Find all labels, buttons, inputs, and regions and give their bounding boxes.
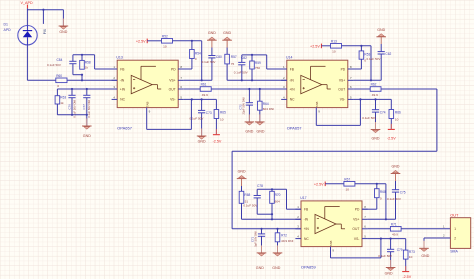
svg-text:+IN: +IN: [120, 87, 126, 91]
wire PD pin 8 of U13: [178, 68, 192, 70]
wire feedback vertical: [81, 75, 83, 81]
junction: [260, 228, 262, 230]
svg-text:0.1uF 50V: 0.1uF 50V: [234, 70, 248, 74]
svg-text:0: 0: [57, 84, 59, 88]
capacitor C71: [258, 234, 265, 253]
label SMA: [450, 250, 458, 254]
junction R59 top: [251, 54, 253, 56]
wire R62 right: [381, 88, 437, 90]
wire R67 to corner: [355, 183, 386, 185]
svg-text:10: 10: [409, 255, 413, 259]
capacitor C75: [392, 190, 399, 220]
svg-text:5pF 50V DNI: 5pF 50V DNI: [254, 231, 258, 247]
resistor R68 (feedback): [239, 191, 250, 203]
wire to C71: [261, 229, 263, 234]
svg-text:10: 10: [395, 118, 399, 122]
wire R65 to -2.5V: [215, 119, 217, 135]
wire to FB pin 1 of U17: [287, 208, 302, 210]
svg-text:-2.5V: -2.5V: [402, 275, 411, 279]
svg-text:0.1uF 50V: 0.1uF 50V: [47, 63, 61, 67]
svg-text:49.9 DNI: 49.9 DNI: [281, 239, 293, 243]
svg-text:0: 0: [380, 197, 382, 201]
junction R68 tap: [376, 183, 378, 185]
junction feedback tap: [81, 79, 83, 81]
junction: [241, 79, 243, 81]
svg-text:49.9: 49.9: [202, 93, 208, 97]
capacitor C79: [387, 249, 394, 267]
svg-text:OPA657: OPA657: [287, 126, 303, 131]
wire VS+ row of U14: [353, 79, 381, 81]
junction: [259, 88, 261, 90]
power port -2.5V (stage 3): [402, 266, 412, 279]
wire to R60: [27, 79, 55, 81]
wire route down: [436, 89, 438, 151]
op-amp U13 part number: [117, 126, 133, 131]
junction: [86, 114, 88, 116]
op-amp U17 pin names: [304, 208, 360, 253]
op-amp U17 part number: [301, 265, 317, 270]
power port +2.5V (stage 2): [310, 44, 321, 49]
svg-text:-2.5V: -2.5V: [387, 136, 396, 140]
wire R70 bottom stub: [271, 203, 273, 214]
op-amp U17 pins: [295, 205, 367, 239]
svg-text:VS+: VS+: [353, 218, 359, 222]
wire R52 to corner: [173, 40, 202, 42]
wire VS- row of U14: [353, 98, 391, 100]
junction: [248, 88, 250, 90]
wire +2.5V down to VS+ row: [201, 41, 203, 81]
ground (R72): [272, 245, 282, 269]
svg-text:0.1uF 50V: 0.1uF 50V: [362, 116, 376, 120]
wire R63 top stub: [56, 89, 58, 96]
junction: [374, 98, 376, 100]
ground (C73): [197, 129, 207, 144]
wire TAB loop up U14: [359, 99, 361, 125]
wire +2.5V to R67: [325, 183, 344, 185]
label C77 value: [82, 100, 91, 118]
wire C77 top stub: [86, 89, 88, 95]
wire R59 to -IN row: [251, 69, 253, 80]
connector SMA pins: [443, 224, 456, 240]
wire corner down to FB row: [266, 55, 268, 69]
wire feedback to FB corner: [94, 55, 96, 69]
svg-text:PD: PD: [355, 208, 360, 212]
svg-text:GND: GND: [198, 140, 206, 144]
wire to R72: [277, 229, 279, 233]
svg-text:C73: C73: [206, 111, 212, 115]
wire SMA pin 2 to ground: [424, 237, 450, 239]
wire to ground: [86, 115, 88, 126]
wire R57 to -IN row: [226, 64, 228, 80]
svg-text:C77: C77: [82, 104, 86, 110]
svg-text:GND: GND: [421, 254, 429, 258]
ground (C72): [245, 114, 255, 133]
op-amp U14 designator: [286, 55, 292, 59]
op-amp U14 triangle: [301, 66, 331, 94]
svg-text:R62: R62: [371, 83, 377, 87]
svg-text:R68: R68: [380, 190, 386, 194]
junction: [380, 238, 382, 240]
wire R73 to -2.5V: [405, 259, 407, 271]
op-amp U17 triangle: [315, 207, 345, 234]
svg-text:GND: GND: [256, 266, 264, 270]
label C84 value: [47, 58, 63, 67]
svg-text:NC: NC: [120, 98, 125, 102]
svg-text:GND: GND: [392, 165, 400, 169]
wire to R73: [405, 239, 407, 251]
svg-text:+IN: +IN: [304, 227, 310, 231]
wire TAB down U14: [315, 108, 317, 126]
op-amp U17 designator: [300, 196, 306, 200]
resistor R13: [331, 39, 342, 53]
wire PD pin 8 of U14: [348, 68, 362, 70]
svg-text:C74: C74: [380, 110, 386, 114]
svg-text:R52: R52: [162, 34, 168, 38]
label C74 value: [362, 110, 386, 120]
wire to R66: [390, 99, 392, 109]
resistor R54: [190, 50, 201, 62]
label C82 value: [234, 56, 248, 74]
wire to GND: [62, 10, 64, 26]
wire to C72: [248, 89, 250, 103]
svg-text:APD: APD: [4, 28, 12, 32]
junction VS+ row U14: [370, 79, 372, 81]
svg-text:TAB: TAB: [315, 102, 319, 108]
wire GND to C75: [395, 174, 397, 190]
junction R54 tap: [191, 40, 193, 42]
svg-text:604: 604: [275, 199, 280, 203]
junction on V_APD branch: [42, 9, 44, 11]
svg-text:0.1uF 50V: 0.1uF 50V: [190, 116, 204, 120]
wire +2.5V down to VS+ row U17: [385, 184, 387, 220]
svg-text:PD: PD: [171, 67, 176, 71]
capacitor C74: [372, 110, 379, 130]
capacitor C62: [378, 52, 385, 81]
svg-text:R54: R54: [195, 52, 201, 56]
op-amp U13 body: [117, 60, 178, 107]
wire R53 top stub: [360, 46, 362, 51]
junction sub rail: [271, 213, 273, 215]
svg-text:GND: GND: [59, 30, 67, 34]
resistor R61: [200, 83, 211, 97]
wire to C74: [375, 99, 377, 109]
label C80 value: [202, 55, 222, 64]
ground (top right of photodiode): [59, 19, 69, 34]
svg-text:V_APD: V_APD: [21, 1, 33, 5]
photodiode D1: [18, 26, 37, 45]
label C79 value: [378, 248, 403, 258]
svg-text:GND: GND: [223, 31, 231, 35]
wire TAB loop up U13: [190, 99, 192, 129]
resistor R66: [389, 110, 401, 122]
wire R68 to -IN row U17: [241, 203, 243, 219]
svg-text:VS+: VS+: [339, 79, 345, 83]
power port +2.5V (stage 3): [314, 182, 325, 187]
capacitor C80: [208, 56, 215, 81]
label C73 value: [190, 111, 212, 121]
svg-text:PD: PD: [341, 67, 346, 71]
svg-text:R63: R63: [60, 96, 66, 100]
wire R54 top stub: [191, 41, 193, 50]
wire C76 top stub: [71, 89, 73, 95]
wire R71 to connector: [401, 228, 450, 230]
junction: [276, 228, 278, 230]
svg-text:R59: R59: [255, 61, 261, 65]
resistor R60: [56, 74, 67, 88]
svg-text:0.1uF 50V: 0.1uF 50V: [243, 204, 257, 208]
svg-text:0.1uF 50V: 0.1uF 50V: [367, 57, 381, 61]
wire R66 to -2.5V: [390, 119, 392, 130]
svg-text:R61: R61: [201, 83, 207, 87]
svg-text:1k: 1k: [85, 66, 89, 70]
svg-text:R73: R73: [409, 250, 415, 254]
label C75 value: [387, 190, 406, 200]
resistor R72: [275, 233, 293, 243]
wire R70 top stub: [271, 189, 273, 191]
ground (R57): [222, 31, 232, 40]
connector SMA body: [450, 218, 470, 249]
wire TAB down U17: [330, 247, 332, 258]
net label OUT: [450, 213, 459, 218]
ground (C79): [385, 260, 396, 275]
svg-text:GND: GND: [372, 136, 380, 140]
svg-text:VS-: VS-: [170, 98, 176, 102]
wire +2.5V to R52: [147, 40, 161, 42]
svg-text:0.1uF 50V: 0.1uF 50V: [378, 254, 392, 258]
junction: [359, 98, 361, 100]
label D1 APD: [4, 23, 12, 32]
wire TAB down U13: [146, 108, 148, 130]
wire to R65: [215, 99, 217, 109]
op-amp U13 designator: [116, 55, 122, 59]
wire GND to C62: [380, 37, 382, 52]
svg-text:10: 10: [346, 188, 350, 192]
svg-text:VS-: VS-: [340, 98, 346, 102]
wire TAB loop up U17: [380, 239, 382, 258]
wire route across: [232, 150, 437, 152]
ground (C80): [207, 31, 217, 40]
resistor R52: [162, 34, 173, 48]
junction: [71, 88, 73, 90]
wire PD pin 8 of U17: [362, 208, 377, 210]
svg-text:GND: GND: [245, 129, 253, 133]
junction: [201, 98, 203, 100]
wire R53 to PD row: [360, 59, 362, 69]
resistor R68 (supply): [375, 189, 386, 201]
wire R54 to PD row: [191, 59, 193, 70]
svg-text:1k: 1k: [60, 101, 64, 105]
op-amp U13 pin names: [120, 67, 176, 113]
svg-text:C62: C62: [385, 52, 391, 56]
junction: [191, 98, 193, 100]
svg-text:0.1uF 50V: 0.1uF 50V: [202, 60, 216, 64]
ground (C75): [391, 165, 401, 174]
svg-text:TAB: TAB: [145, 102, 149, 108]
svg-text:-IN: -IN: [289, 79, 294, 83]
svg-text:TAB: TAB: [329, 241, 333, 247]
svg-text:NC: NC: [290, 98, 295, 102]
capacitor C73: [198, 110, 205, 136]
svg-text:2: 2: [454, 236, 456, 240]
capacitor C77: [83, 95, 90, 115]
svg-text:-IN: -IN: [120, 79, 125, 83]
wire +2.5V to R13: [321, 45, 330, 47]
wire R59 top stub: [251, 55, 253, 61]
svg-text:C79: C79: [397, 248, 403, 252]
svg-text:1: 1: [454, 227, 456, 231]
svg-text:OUT: OUT: [338, 87, 345, 91]
ground (stage1 +IN network): [82, 119, 92, 138]
ground (C74): [371, 122, 381, 140]
junction: [86, 88, 88, 90]
resistor R73: [403, 250, 415, 259]
resistor R64: [258, 101, 275, 111]
junction top rail U17: [271, 188, 273, 190]
svg-text:OUT: OUT: [169, 87, 176, 91]
svg-text:75: 75: [231, 62, 235, 66]
wire +2.5V down to VS+ row U14: [370, 46, 372, 81]
svg-text:OUT: OUT: [352, 227, 359, 231]
capacitor C72: [246, 103, 253, 122]
wire OUT of U14: [353, 88, 370, 90]
label C76 value: [67, 100, 76, 118]
svg-text:10: 10: [220, 118, 224, 122]
svg-text:C82: C82: [241, 56, 247, 60]
resistor R62: [370, 83, 381, 97]
capacitor C78: [254, 196, 261, 215]
power port -2.5V (stage 2): [387, 124, 396, 140]
net label PIX: [43, 28, 47, 34]
wire VS- row of U13: [184, 98, 217, 100]
junction: [71, 114, 73, 116]
capacitor C76: [68, 95, 75, 115]
wire to C79: [390, 239, 392, 250]
wire to FB pin 1 of U13: [95, 68, 118, 70]
op-amp U14 pins: [281, 65, 353, 100]
capacitor C82: [238, 62, 245, 80]
resistor R65: [214, 110, 226, 122]
wire R68 to PD row: [376, 198, 378, 210]
svg-text:R65: R65: [220, 111, 226, 115]
svg-text:R71: R71: [391, 222, 397, 226]
wire R13 to corner: [342, 45, 372, 47]
svg-text:U17: U17: [300, 196, 306, 200]
svg-text:R53: R53: [364, 52, 370, 56]
wire C78 R70 sub rail: [257, 213, 272, 215]
wire rail corner to FB row: [286, 189, 288, 209]
resistor R63: [55, 96, 66, 105]
junction: [251, 79, 253, 81]
wire feedback top rail U17: [257, 188, 286, 190]
wire OUT of U13: [184, 88, 200, 90]
wire C82 top stub: [241, 55, 243, 63]
wire R64 to ground: [259, 110, 261, 122]
svg-text:R64: R64: [263, 102, 269, 106]
svg-text:R68: R68: [244, 193, 250, 197]
wire -IN row of U14: [227, 79, 287, 81]
svg-text:-2.5V: -2.5V: [213, 140, 222, 144]
resistor R57: [225, 54, 237, 66]
svg-text:+2.5V: +2.5V: [314, 182, 324, 186]
wire R61 to +IN of U14: [211, 88, 287, 90]
svg-text:GND: GND: [238, 170, 246, 174]
power port -2.5V (stage 1): [213, 129, 222, 143]
wire TAB loop bottom U13: [147, 128, 192, 130]
svg-text:0.1uF 50V: 0.1uF 50V: [387, 197, 401, 201]
svg-text:OPA657: OPA657: [117, 126, 133, 131]
junction -IN row U17: [271, 218, 273, 220]
svg-text:GND: GND: [83, 134, 91, 138]
resistor R53: [359, 51, 370, 63]
svg-text:49.9: 49.9: [372, 93, 378, 97]
svg-text:R70: R70: [275, 193, 281, 197]
wire to C73: [201, 99, 203, 110]
op-amp U14 pin names: [289, 67, 345, 113]
svg-text:OPA859: OPA859: [301, 265, 317, 270]
wire -IN row of U17: [242, 218, 302, 220]
svg-text:+2.5V: +2.5V: [136, 39, 146, 43]
junction feedback bottom: [81, 74, 83, 76]
svg-text:22pF 50V DNI: 22pF 50V DNI: [242, 97, 246, 114]
wire to +IN of U17: [232, 228, 301, 230]
svg-text:-IN: -IN: [304, 218, 309, 222]
power port +2.5V (stage 1): [136, 39, 147, 44]
svg-text:U14: U14: [286, 55, 292, 59]
junction R58 top: [81, 54, 83, 56]
svg-text:49.9: 49.9: [392, 233, 398, 237]
svg-text:U13: U13: [116, 55, 122, 59]
svg-text:C80: C80: [216, 55, 222, 59]
label C78 value: [243, 184, 263, 208]
ground (SMA shield): [419, 241, 430, 258]
svg-text:SMA: SMA: [450, 250, 458, 254]
svg-text:750: 750: [255, 66, 260, 70]
wire R68 top stub: [376, 184, 378, 189]
op-amp U13 triangle: [131, 66, 161, 94]
op-amp U14 body: [287, 60, 348, 107]
svg-text:OUT: OUT: [450, 213, 459, 218]
svg-text:C75: C75: [400, 190, 406, 194]
wire to FB pin 1 of U14: [267, 68, 287, 70]
wire V_APD to photodiode: [26, 8, 28, 25]
svg-text:C76: C76: [67, 104, 71, 110]
svg-text:R58: R58: [85, 60, 91, 64]
svg-text:VS-: VS-: [354, 237, 360, 241]
wire +IN network bottom rail: [57, 114, 86, 116]
resistor R59: [250, 61, 261, 70]
wire sub rail to -IN row: [271, 214, 273, 219]
power port V_APD: [21, 1, 33, 8]
wire OUT of U17: [368, 228, 391, 230]
wire GND to C80: [211, 40, 213, 55]
junction: [390, 238, 392, 240]
wire feedback top rail: [73, 54, 95, 56]
wire down to ground: [423, 238, 425, 248]
resistor R70: [270, 191, 281, 203]
label C71 value: [250, 231, 257, 247]
wire route down to stage 3: [231, 151, 233, 229]
svg-text:R67: R67: [344, 177, 350, 181]
svg-text:GND: GND: [272, 266, 280, 270]
svg-text:10: 10: [163, 45, 167, 49]
svg-text:GND: GND: [385, 271, 393, 275]
svg-text:GND: GND: [377, 28, 385, 32]
wire VS+ row of U17: [368, 218, 396, 220]
capacitor C84: [69, 55, 76, 75]
wire PIX stub: [42, 10, 44, 24]
wire VS- row of U17: [368, 238, 406, 240]
wire TAB loop bottom U14: [316, 124, 360, 126]
